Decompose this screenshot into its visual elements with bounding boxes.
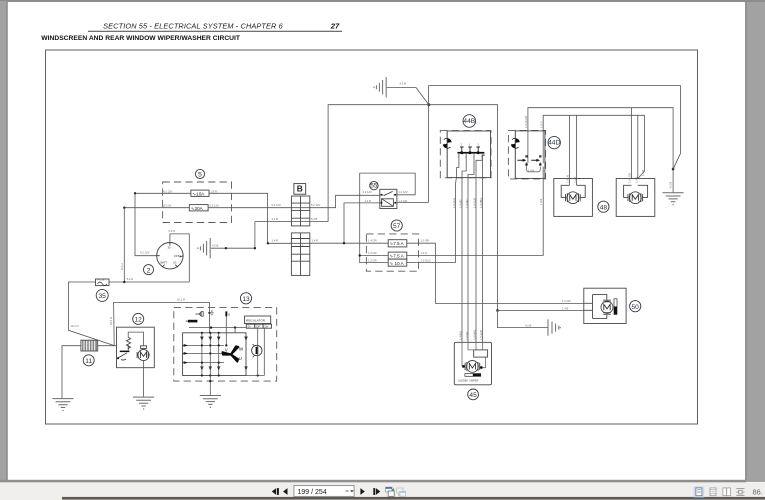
svg-text:4.2 12V: 4.2 12V (363, 190, 372, 194)
previous view icon (386, 487, 395, 496)
svg-text:5.2 12V: 5.2 12V (272, 203, 281, 207)
svg-text:V: V (225, 348, 228, 353)
header underline (88, 30, 342, 33)
node: B+ entry (208, 312, 210, 314)
svg-text:1.4 B: 1.4 B (641, 170, 645, 176)
wire: B+ down into bridge (209, 313, 211, 333)
wire: down to washer ground (498, 310, 549, 327)
svg-text:6.2 B: 6.2 B (311, 217, 317, 221)
wire: relay output loop to fuses 2-3 of 57 (360, 173, 416, 263)
bridge bottom bus extension (246, 375, 264, 377)
svg-text:REGULATOR: REGULATOR (246, 318, 266, 322)
wire: 57 row2 out to 44D drop (407, 255, 543, 257)
svg-text:1.4 GR: 1.4 GR (368, 239, 377, 243)
44D stem (514, 131, 516, 179)
terminal black connector (188, 320, 197, 323)
continuous layout icon (710, 488, 716, 496)
svg-text:55: 55 (370, 183, 378, 190)
ground top right (663, 193, 684, 206)
svg-text:4.2 12V: 4.2 12V (163, 189, 172, 193)
label circle 2 (144, 265, 154, 275)
svg-text:5: 5 (198, 172, 202, 179)
svg-text:199 / 254: 199 / 254 (298, 489, 327, 496)
Y winding arrows (223, 346, 239, 361)
wire: relay coil right to ground net riser (397, 201, 429, 203)
wire: F2 output to relay 55 via strip (208, 195, 380, 207)
rotor circle (252, 345, 262, 355)
svg-text:13: 13 (242, 296, 250, 303)
svg-text:27: 27 (330, 21, 340, 30)
svg-text:1.0 G: 1.0 G (421, 251, 428, 255)
svg-text:15/54: 15/54 (174, 254, 181, 258)
wire: D+ drop to bus end (263, 328, 265, 375)
wire: 4.2B drop to ground rail (211, 222, 255, 249)
wire: relay coil left pin to 1.4R row (344, 203, 380, 243)
page right border (745, 2, 746, 480)
svg-text:B: B (297, 184, 303, 194)
svg-text:48: 48 (600, 204, 608, 211)
last page button (373, 488, 375, 495)
ground (left style) near switch (197, 238, 210, 258)
wire: F1 to connector B (jog down) (209, 193, 291, 243)
wire bus1 (528, 108, 673, 193)
node: F1 tap (134, 192, 136, 194)
switch pin ticks (157, 243, 183, 268)
vertical bundle v1 (455, 184, 457, 263)
ground (left style) top centre (373, 77, 386, 97)
svg-text:4.2 12V: 4.2 12V (398, 190, 407, 194)
wire bus2 (543, 115, 644, 178)
wire: batt vertical to switch (135, 193, 157, 255)
terminal D+ plug (195, 312, 200, 315)
D- DF D+ boxes (246, 324, 254, 328)
svg-text:1.0 GLB: 1.0 GLB (472, 198, 476, 208)
svg-text:∿10A: ∿10A (192, 191, 205, 196)
node A (427, 103, 430, 106)
fuse 57-3 10A (388, 259, 407, 266)
svg-text:GLEDEK / WIPER: GLEDEK / WIPER (458, 380, 479, 383)
node: loop row2 (359, 254, 361, 256)
next view icon (disabled) (397, 488, 406, 496)
row input plugs (184, 344, 187, 364)
svg-text:1.0 NBG: 1.0 NBG (479, 198, 483, 208)
svg-text:U: U (239, 356, 242, 361)
label circle 48 (598, 201, 609, 212)
svg-text:1.4 B: 1.4 B (634, 177, 638, 183)
wire: motor 12 to ground (143, 361, 145, 397)
wire: into fuse F1 (135, 192, 191, 194)
svg-text:44B: 44B (463, 118, 475, 125)
svg-text:16.2 R: 16.2 R (177, 297, 185, 301)
svg-text:1.4 R: 1.4 R (312, 239, 318, 243)
wire: zigzag top loop to motor (128, 332, 143, 346)
ground under 12 (133, 397, 154, 410)
resistor zigzag in 12 (126, 337, 130, 348)
svg-text:1.2 GR: 1.2 GR (368, 251, 377, 255)
wire: into fuse F2 (124, 207, 189, 209)
junction dots on bridge (201, 332, 259, 377)
motor M 48L (566, 192, 581, 204)
contact bar in 12 (120, 351, 130, 353)
45 relay block (474, 350, 488, 357)
left gray margin (0, 1, 7, 481)
svg-text:44D: 44D (548, 140, 560, 147)
svg-text:1.0 NAG: 1.0 NAG (472, 330, 476, 340)
svg-text:B: B (228, 312, 230, 316)
svg-text:1.4 R: 1.4 R (272, 239, 278, 243)
wire: strip upper row2 continuation (291, 207, 309, 209)
svg-text:5.2 N: 5.2 N (169, 229, 175, 233)
B terminal bar (225, 311, 227, 316)
fuse F1 10A (191, 190, 209, 196)
wire: F2 tap down to bus (123, 208, 125, 282)
page number input (294, 486, 354, 497)
wire: top ground to node A (387, 87, 429, 104)
node: 44B right edge bottom (496, 309, 499, 312)
svg-text:5.2 12V: 5.2 12V (311, 203, 320, 207)
right gray margin (746, 2, 765, 482)
svg-text:1.2 GR: 1.2 GR (368, 258, 377, 262)
ground under 13 (200, 396, 221, 409)
svg-text:∿7.5 A: ∿7.5 A (389, 241, 404, 246)
label circle 5 (195, 169, 204, 178)
propeller 44B (443, 138, 452, 148)
wire: 16.2R riser to alternator (114, 302, 210, 345)
single page layout icon (active) (694, 486, 705, 497)
motor M 45 (465, 361, 480, 373)
washer level bar (614, 299, 617, 315)
wire: to box50 lower pin (498, 309, 584, 311)
svg-text:1.0 GLGB: 1.0 GLGB (524, 116, 528, 128)
first page button (272, 488, 276, 495)
node: coil drop junction (343, 242, 345, 244)
svg-text:11: 11 (85, 358, 92, 365)
wire: 57 row1 out to box 50 top pin (407, 243, 584, 303)
svg-text:BATT: BATT (161, 260, 168, 264)
node: rail mid (225, 247, 227, 249)
diodes bottom row (200, 367, 248, 370)
svg-text:1.4 B/G: 1.4 B/G (458, 331, 462, 340)
wire: regulator D- rail (189, 327, 246, 329)
facing pages icon (723, 488, 727, 496)
wire: DF through rotor to bottom bus (257, 328, 259, 375)
bridge columns (202, 333, 219, 376)
44B contacts (460, 147, 480, 153)
component 35 : in-line fuse (96, 279, 110, 286)
svg-text:1.0 GR: 1.0 GR (562, 299, 571, 303)
wire: ground 4.2B through strip row4 (255, 221, 328, 223)
node: right ground merge (672, 168, 675, 171)
node: F1 tap into strip (267, 242, 269, 244)
connector strip B lower (291, 233, 309, 276)
svg-text:35: 35 (99, 293, 107, 300)
prev page button (283, 488, 287, 495)
svg-text:SECTION 55 - ELECTRICAL SYSTEM: SECTION 55 - ELECTRICAL SYSTEM - CHAPTER… (103, 21, 283, 30)
svg-text:1.4 B: 1.4 B (573, 177, 577, 183)
44D contacts (525, 155, 527, 157)
relay coil (382, 199, 394, 207)
node: bus tap (123, 281, 125, 283)
wire: motor2 feeds (632, 108, 638, 179)
svg-text:D–: D– (248, 325, 252, 329)
svg-text:1.0 B: 1.0 B (539, 199, 543, 205)
wire: B bar down (225, 316, 227, 345)
phase rows (183, 345, 224, 362)
vertical bundle v2-v5 (462, 178, 483, 342)
bus wire to component 35 (69, 282, 190, 346)
svg-text:6.2 H: 6.2 H (120, 264, 124, 270)
svg-text:1.0 GLG: 1.0 GLG (452, 198, 456, 208)
propeller 44D (511, 138, 520, 148)
svg-text:∿7.5 A: ∿7.5 A (389, 254, 404, 259)
svg-text:1.0 GLB: 1.0 GLB (479, 330, 483, 340)
motor M in 12 (141, 346, 147, 349)
svg-text:(5.2 H): (5.2 H) (163, 204, 171, 208)
svg-text:5.2 H: 5.2 H (127, 277, 133, 281)
svg-text:D+: D+ (265, 325, 269, 329)
svg-text:1.0 G: 1.0 G (539, 121, 543, 128)
wire: coil right to node (98, 345, 117, 347)
44B internals: stem (446, 131, 448, 178)
fuse 57-1 7.5A (388, 240, 407, 247)
level capsule (465, 374, 481, 377)
toolbar bottom edge (62, 497, 765, 499)
label box B (294, 184, 306, 195)
ground (right style) near 50 (548, 319, 561, 335)
svg-text:WINDSCREEN AND REAR WINDOW WI: WINDSCREEN AND REAR WINDOW WIPER/WASHER … (41, 35, 241, 42)
svg-text:1.6 R: 1.6 R (211, 189, 217, 193)
wire: ground riser down to relay coil (428, 86, 430, 203)
next page button (360, 488, 364, 495)
wire: 1.4R strip row to relay coil and fuse 57 (291, 242, 388, 244)
45 feeds inside (462, 342, 486, 367)
wire: row2 feed from loop (360, 255, 389, 257)
connector strip B upper (291, 196, 309, 226)
svg-text:∿30A: ∿30A (191, 206, 204, 211)
fuse F2 30A (189, 205, 208, 211)
svg-text:1.0 NG: 1.0 NG (458, 199, 462, 208)
schematic outer frame (46, 50, 698, 424)
regulator box (245, 316, 271, 324)
node: rail corner (254, 247, 256, 249)
svg-text:4.2 12V: 4.2 12V (140, 250, 149, 254)
label circle 12 (133, 313, 144, 324)
44B internal routing to exits (456, 154, 485, 184)
wire: 57 row3 out to v1 (407, 262, 456, 264)
svg-text:1.0 NH: 1.0 NH (465, 200, 469, 208)
svg-text:FUSE: FUSE (97, 278, 104, 282)
svg-text:4.2 B: 4.2 B (669, 182, 673, 188)
page bottom shadow line (0, 480, 746, 483)
svg-text:12: 12 (135, 317, 143, 324)
motor M 48R (628, 192, 643, 204)
44B enclosure wires (429, 105, 498, 311)
relay contact (381, 191, 395, 195)
svg-text:1.4 B: 1.4 B (528, 169, 534, 173)
fuse 57-2 7.5A (388, 252, 407, 259)
svg-text:4.2 B: 4.2 B (400, 82, 406, 86)
svg-text:45: 45 (469, 392, 477, 399)
svg-text:DF: DF (256, 325, 260, 329)
svg-text:4.2 B: 4.2 B (212, 243, 218, 247)
page left border (7, 2, 8, 480)
svg-text:1.0 NG: 1.0 NG (465, 331, 469, 340)
svg-text:1.4 B: 1.4 B (562, 306, 568, 310)
svg-text:50: 50 (632, 304, 640, 311)
svg-text:86.: 86. (753, 488, 763, 497)
continuous facing icon (736, 489, 744, 496)
label circle 35 (96, 289, 108, 301)
ground under 11 (52, 399, 73, 412)
svg-text:1.0 LGB: 1.0 LGB (627, 173, 631, 183)
label circle 50 (630, 301, 641, 312)
node: F2 tap (123, 207, 125, 209)
svg-text:∿ 10 A: ∿ 10 A (389, 261, 404, 266)
svg-text:4.2 B: 4.2 B (525, 324, 531, 328)
svg-text:16.2 R: 16.2 R (109, 317, 113, 325)
svg-text:30: 30 (168, 246, 172, 250)
svg-text:5.2 12V: 5.2 12V (210, 204, 219, 208)
wire: alternator ground (209, 376, 211, 396)
wire: switch pin 30 loop to bus (170, 234, 189, 282)
svg-text:IG: IG (174, 260, 177, 264)
wire: ground rail left run to strip row4 (328, 105, 429, 222)
label circle 45 (468, 389, 479, 400)
label circle 11 (83, 355, 94, 366)
wire: 44D lower contact down to fuse row2 (542, 167, 544, 256)
svg-text:57: 57 (393, 223, 401, 230)
wire W_top: top bus to right ground (429, 86, 681, 170)
svg-text:1.0 LN: 1.0 LN (566, 175, 570, 183)
svg-text:16.2 N: 16.2 N (71, 324, 79, 328)
wire: 44D pin verticals inside (527, 155, 541, 163)
bottom toolbar (0, 482, 765, 500)
svg-text:1.0 GLG: 1.0 GLG (421, 258, 431, 262)
svg-text:1.0 GR: 1.0 GR (421, 239, 430, 243)
svg-text:4.2 B: 4.2 B (272, 217, 278, 221)
svg-text:2: 2 (147, 267, 151, 274)
svg-text:1.4 R: 1.4 R (365, 199, 371, 203)
bridge inner box (183, 333, 246, 376)
window top edge (0, 0, 765, 2)
wire: motor1 feeds (569, 115, 576, 185)
wire: coil left to ground (62, 346, 81, 399)
diodes top row (200, 337, 248, 340)
